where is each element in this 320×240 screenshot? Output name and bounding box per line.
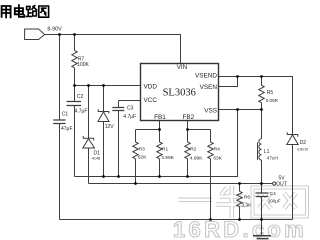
svg-text:12V: 12V: [105, 124, 115, 130]
svg-text:100μF: 100μF: [268, 199, 281, 204]
svg-text:47uH: 47uH: [267, 156, 278, 161]
svg-text:100K: 100K: [77, 62, 89, 68]
svg-text:VSS: VSS: [204, 107, 217, 114]
svg-text:R2: R2: [190, 147, 196, 153]
svg-text:VDD: VDD: [144, 83, 158, 90]
svg-text:0.05R: 0.05R: [266, 98, 279, 103]
svg-text:OUT: OUT: [276, 181, 287, 187]
svg-text:D2: D2: [300, 140, 307, 146]
svg-text:4.7μF: 4.7μF: [75, 108, 88, 114]
svg-text:C1: C1: [62, 112, 69, 118]
svg-text:47μF: 47μF: [61, 126, 73, 132]
svg-text:FB1: FB1: [154, 114, 166, 121]
svg-text:L1: L1: [264, 149, 270, 155]
svg-text:VSEND: VSEND: [195, 72, 217, 79]
svg-text:SL3036: SL3036: [163, 88, 196, 99]
svg-text:4.99K: 4.99K: [190, 156, 203, 162]
svg-text:R5: R5: [267, 90, 274, 96]
svg-text:5V: 5V: [279, 175, 286, 181]
svg-text:FB2: FB2: [183, 114, 195, 121]
svg-text:4.99K: 4.99K: [161, 155, 174, 161]
svg-text:8-90V: 8-90V: [47, 27, 62, 33]
svg-text:VSEN: VSEN: [200, 84, 218, 91]
svg-text:4148: 4148: [92, 157, 100, 161]
svg-text:R1: R1: [162, 146, 168, 152]
svg-text:C3: C3: [127, 106, 134, 112]
svg-text:R6: R6: [244, 194, 250, 200]
svg-text:C4: C4: [270, 191, 276, 197]
svg-text:4.7μF: 4.7μF: [123, 114, 136, 120]
svg-text:VCC: VCC: [144, 97, 158, 104]
svg-text:R3: R3: [139, 146, 145, 152]
svg-text:62K: 62K: [138, 155, 147, 161]
svg-text:VIN: VIN: [177, 64, 188, 71]
svg-text:R4: R4: [214, 147, 220, 153]
svg-text:C2: C2: [77, 94, 84, 100]
svg-text:6.8V10: 6.8V10: [297, 148, 308, 152]
svg-text:3.3K: 3.3K: [242, 202, 253, 208]
svg-text:63K: 63K: [213, 156, 222, 162]
